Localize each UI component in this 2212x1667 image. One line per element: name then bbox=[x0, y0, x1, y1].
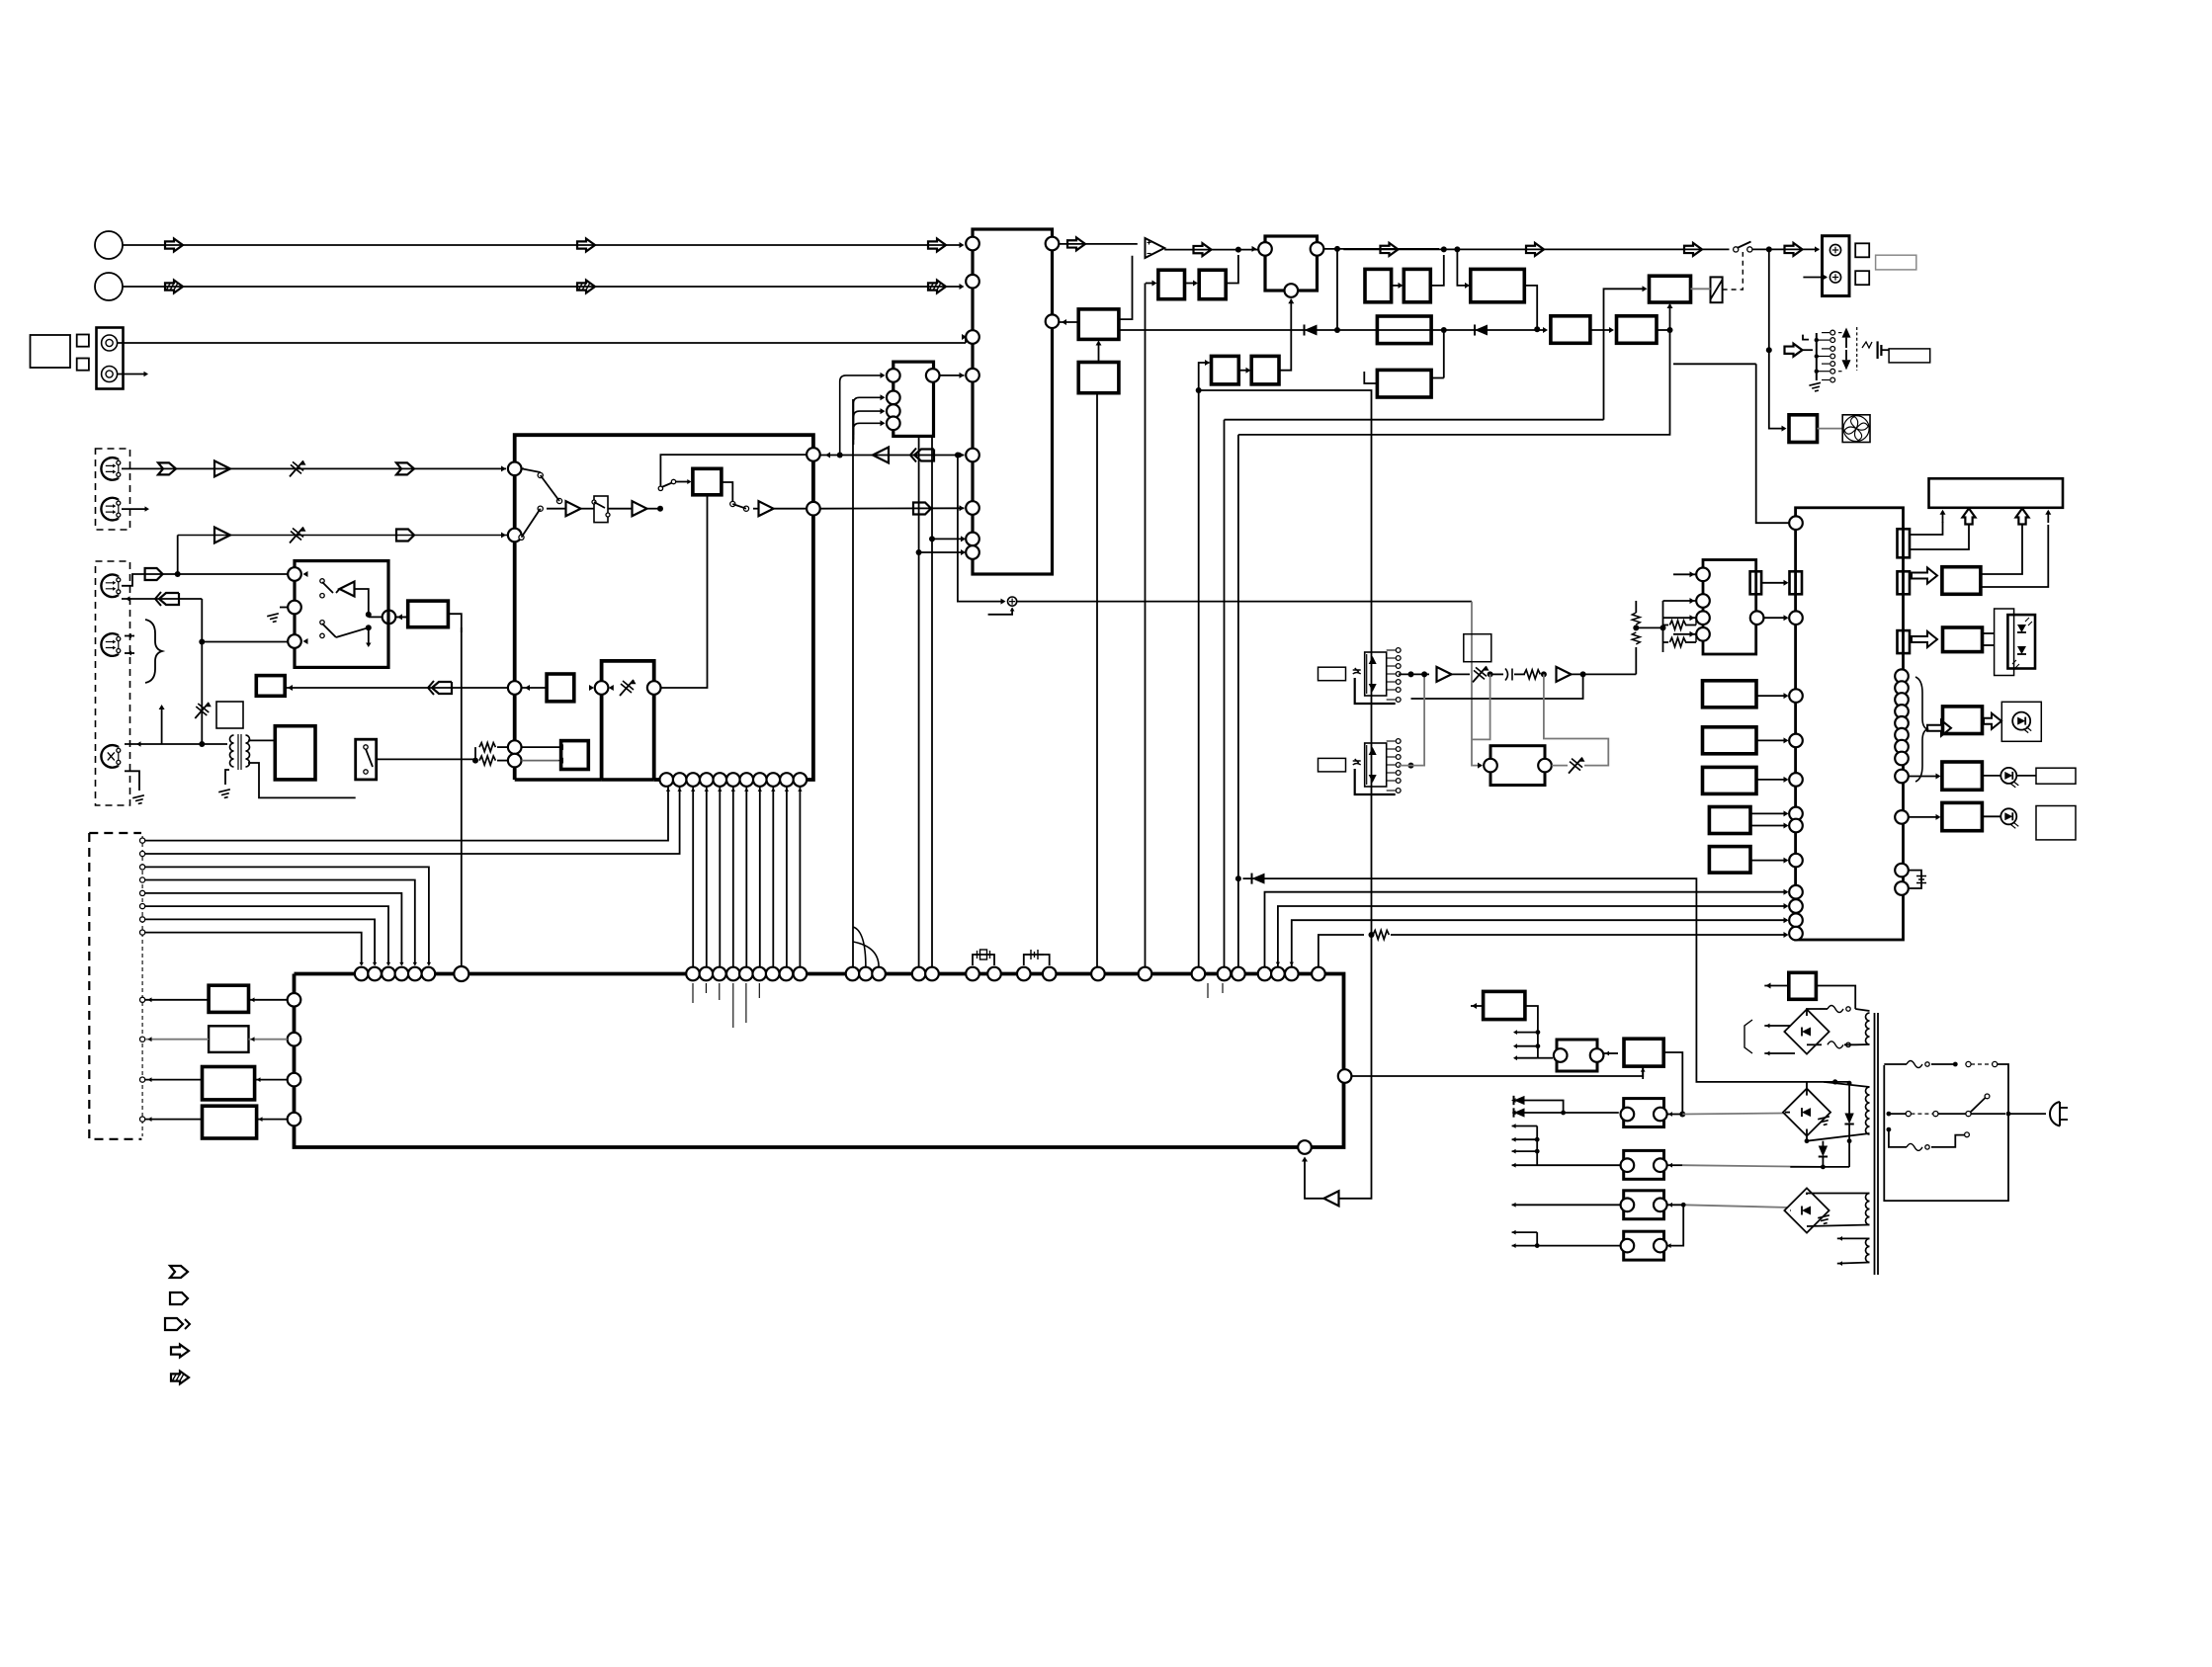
attenuator AT1 bbox=[290, 460, 303, 476]
arrowhead L2 bbox=[960, 284, 965, 290]
connector J1 body bbox=[97, 328, 124, 389]
rect led drv bbox=[1943, 707, 1983, 734]
DSP top pin F bbox=[1091, 967, 1105, 981]
arrowhead rectI to sw bbox=[397, 614, 402, 620]
wire M2 out up bbox=[1399, 674, 1424, 765]
label box amp1 bbox=[1319, 667, 1346, 681]
legend arrow hatched bbox=[171, 1372, 189, 1384]
AC plug bbox=[2050, 1102, 2060, 1126]
contact line 1 up bbox=[142, 787, 668, 841]
big arrow cluster bbox=[1927, 720, 1951, 736]
dashed IO box bbox=[89, 833, 141, 1139]
ground G2 bbox=[218, 790, 231, 799]
wire x1460 down bbox=[1443, 330, 1445, 378]
attenuator AT10 bbox=[1473, 666, 1487, 682]
stadF c1 bbox=[1621, 1239, 1635, 1253]
wire bus y460 bbox=[820, 455, 965, 457]
wire E to F bbox=[1668, 1205, 1683, 1245]
switch box SB1 bbox=[295, 561, 388, 668]
capacitor C10 bbox=[1505, 669, 1512, 681]
W1 fuse bot bbox=[1828, 1042, 1843, 1048]
wire rk net bbox=[1662, 601, 1664, 652]
wire T1 row bbox=[122, 467, 506, 469]
zener ZD1 bbox=[1844, 1114, 1853, 1125]
wire vbus to matrix row3 bbox=[202, 641, 289, 643]
wire vert x968 to summer bbox=[958, 456, 1004, 602]
stadC c1 bbox=[1621, 1108, 1635, 1122]
tuner T1 bbox=[101, 458, 118, 480]
MCU pin L-c4 bbox=[1789, 773, 1803, 787]
MCU pin L-c11 bbox=[1789, 927, 1803, 941]
wire to cap bbox=[1490, 673, 1503, 675]
disp arrow big2 bbox=[2016, 509, 2029, 525]
DSP top pins A bbox=[686, 967, 700, 981]
J5 pin2 bbox=[887, 391, 900, 405]
wire row2 diag bbox=[519, 535, 524, 540]
wire FM antenna rail bbox=[123, 244, 961, 246]
led box bbox=[2001, 702, 2041, 741]
junction y460 a bbox=[837, 453, 843, 458]
junction M2 out bbox=[1408, 763, 1414, 769]
wire K to edge pin bbox=[522, 687, 548, 689]
junction rail2 bbox=[1660, 625, 1666, 630]
switchbox right pin bbox=[383, 611, 396, 625]
IC3 pin L4 bbox=[966, 369, 979, 382]
J5 pin3 bbox=[887, 404, 900, 418]
attenuator AT11 bbox=[1569, 758, 1582, 774]
wire vbus middle bbox=[201, 642, 203, 745]
wire fb vertical bbox=[1119, 256, 1132, 319]
label lbox2 bbox=[2036, 806, 2076, 840]
BR3 top bbox=[1807, 1194, 1870, 1196]
resistor R10 bbox=[479, 743, 495, 752]
stadD c1 bbox=[1621, 1158, 1635, 1172]
dashed box tuner pair bbox=[96, 449, 130, 530]
MCU pin L-c2 bbox=[1789, 689, 1803, 703]
junction r20 bbox=[1541, 671, 1547, 677]
arrow A9 bbox=[1785, 243, 1803, 256]
MCU pin stadium R3 bbox=[1898, 630, 1911, 653]
pentagon P3 bbox=[913, 503, 931, 515]
arrow FB2 to FB1 bbox=[1098, 343, 1100, 363]
BR2 top bbox=[1806, 1082, 1808, 1096]
keys pin1 bbox=[1696, 568, 1710, 582]
resistor RV2 bbox=[1632, 613, 1640, 625]
switch S3 bbox=[1966, 1112, 1971, 1117]
wire m1 second bbox=[1411, 674, 1583, 699]
keys out circ bbox=[1750, 611, 1764, 625]
primary bottom bbox=[1887, 1127, 1892, 1132]
wire T3 up to pentagon row bbox=[122, 574, 178, 586]
arrowhead into T3 bbox=[126, 596, 130, 601]
BR3 out bbox=[1789, 1209, 1792, 1211]
signal arrow B2 hatched bbox=[577, 281, 595, 293]
winding W1 bbox=[1866, 1013, 1870, 1044]
pack hook bbox=[1803, 335, 1809, 340]
arrow RC-RD bbox=[1238, 370, 1249, 372]
contact square b bbox=[77, 359, 89, 371]
DR1 pin L bbox=[1484, 759, 1497, 773]
arrow to IR bbox=[1912, 568, 1937, 584]
wire at11 to DR1 bbox=[1552, 765, 1568, 767]
ZD1 wires bbox=[1848, 1082, 1850, 1114]
rect RG bbox=[1617, 316, 1658, 344]
staircase lines bbox=[145, 867, 429, 964]
crystal X1 sym bbox=[980, 950, 987, 959]
IC3 pin L8 bbox=[966, 545, 979, 559]
speaker terminal block bbox=[1823, 236, 1850, 296]
matrix bottom pins bbox=[660, 773, 674, 787]
rect RH protect bbox=[1650, 276, 1691, 302]
wire H to relay bbox=[1691, 288, 1711, 290]
BR2 left out bbox=[1785, 1112, 1790, 1114]
mosfet pack M1 bbox=[1365, 652, 1387, 696]
up arrow stub bbox=[161, 708, 163, 744]
rect drv2 bbox=[1942, 762, 1983, 790]
terminal sq2 bbox=[1855, 271, 1869, 285]
opto stadium C bbox=[1624, 1099, 1664, 1127]
switch inside SW9 bbox=[364, 745, 368, 749]
terminal sq1 bbox=[1855, 243, 1869, 257]
wire y368 link bbox=[1673, 363, 1756, 365]
SQ1 pin bc bbox=[1285, 284, 1299, 297]
tap arrows2 bbox=[1512, 1125, 1538, 1127]
wire O3 bbox=[145, 1079, 203, 1081]
rect remote bbox=[1943, 627, 1983, 652]
inner square block Q bbox=[693, 468, 722, 495]
rect RC2 wide bbox=[1471, 269, 1525, 301]
wire m2 down to RC2 bbox=[1457, 249, 1469, 286]
IC3 pin R2 bbox=[1046, 314, 1060, 328]
fan symbol bbox=[1842, 415, 1870, 443]
block FB1 bbox=[1078, 309, 1119, 340]
wire xfmr to block bbox=[248, 739, 275, 741]
arrowhead SQ1 bbox=[1252, 246, 1257, 252]
wire c9 bbox=[1909, 776, 1939, 778]
bus line 4 bbox=[1319, 935, 1364, 967]
wire fan link bbox=[1818, 428, 1843, 430]
mcu left rect R3 bbox=[1703, 767, 1757, 793]
wire O4b bbox=[257, 1119, 288, 1121]
signal arrow A2 bbox=[577, 239, 595, 252]
wire pentagon row right bbox=[178, 573, 290, 575]
wire y395 link bbox=[1199, 390, 1372, 935]
disp arrow t1 bbox=[1942, 511, 1944, 523]
wire rail up bbox=[1635, 647, 1637, 674]
wire a20 bbox=[1452, 673, 1471, 675]
pin stubs inside bbox=[692, 983, 694, 1003]
DSP bottom pin bbox=[1298, 1140, 1312, 1154]
signal arrow A3 bbox=[928, 239, 946, 252]
arrow into D bbox=[1668, 1163, 1672, 1168]
out rect O1 bbox=[209, 985, 248, 1012]
keys pin4 bbox=[1696, 627, 1710, 641]
SB1 wire inv bbox=[336, 589, 340, 593]
wire after switch bbox=[1752, 248, 1820, 250]
wire into L8 bbox=[919, 551, 965, 553]
rect RA bbox=[1158, 270, 1185, 299]
wire J1 pin1 to IC1 bbox=[118, 342, 966, 344]
wire stadA-B bbox=[1603, 1052, 1618, 1054]
wire vert x863 bbox=[852, 399, 854, 967]
IO contacts 2 bbox=[140, 997, 145, 1002]
W2 top rail bbox=[1824, 1082, 1870, 1087]
matrix pin row3-left bbox=[508, 529, 522, 542]
rect RB2 bbox=[1404, 269, 1430, 301]
mcu left rect R2 bbox=[1703, 727, 1757, 754]
bridge BR3 bbox=[1784, 1188, 1829, 1232]
keys block bbox=[1703, 560, 1756, 655]
wire T2 stub bbox=[122, 508, 146, 510]
SB1 down arrow bbox=[368, 627, 370, 644]
pentagon P1 bbox=[396, 530, 414, 542]
dual LED outer bbox=[1995, 609, 2014, 676]
SB1 switch1 bbox=[320, 579, 324, 583]
attenuator AT3 vertical bbox=[195, 703, 209, 718]
wire B bottom up bbox=[1642, 1066, 1644, 1079]
rect RA2 bbox=[1365, 269, 1392, 301]
crystal X1 loop bbox=[973, 955, 994, 965]
double chevron D1 bbox=[159, 593, 179, 605]
wire RC2 out bbox=[1524, 286, 1537, 329]
wire pack out bbox=[1881, 349, 1889, 351]
wire inner Q down bbox=[661, 495, 708, 688]
terminal plus1 bbox=[1829, 244, 1840, 255]
DSP block outline bbox=[295, 974, 1344, 1148]
pack squiggle bbox=[1862, 342, 1872, 348]
block FB2 bbox=[1078, 363, 1119, 393]
relay symbol bbox=[594, 496, 608, 523]
wire x1353 up bbox=[1336, 249, 1338, 330]
bridge BR2 bbox=[1783, 1089, 1830, 1136]
stadD c2 bbox=[1654, 1158, 1667, 1172]
stair to display1 bbox=[1910, 522, 1943, 535]
wire keys f4 bbox=[1673, 633, 1696, 635]
SB1 ground bbox=[267, 614, 280, 624]
wire d-pair bbox=[1525, 1101, 1564, 1114]
arrowhead to K bbox=[589, 685, 594, 691]
pentagon P2 bbox=[145, 568, 163, 580]
wire row1 bbox=[1525, 1112, 1619, 1114]
junction sq a bbox=[1334, 246, 1340, 252]
inner y460 feedback bbox=[660, 455, 807, 486]
wire RB up bbox=[1226, 255, 1238, 284]
wire to right pin2 bbox=[753, 508, 759, 510]
wire r4a bbox=[1750, 812, 1787, 814]
antenna input FM bbox=[95, 231, 123, 259]
led sym3 bbox=[2000, 808, 2016, 824]
BR2 bottom bbox=[1806, 1129, 1808, 1141]
junction vbus row3 bbox=[199, 639, 205, 645]
standby out bbox=[1764, 985, 1789, 987]
wire r20 down bbox=[1544, 674, 1608, 765]
junction rail2a bbox=[1832, 1079, 1837, 1084]
W2 bottom bbox=[1807, 1133, 1870, 1141]
wire row2 bbox=[1512, 1164, 1621, 1166]
wire c10 bbox=[1909, 816, 1939, 818]
wire remote-led2 bbox=[1983, 644, 1995, 646]
arrowhead SB1 p3 bbox=[303, 638, 308, 644]
wire row2 feed bbox=[177, 536, 179, 575]
resistor RK2 bbox=[1669, 638, 1685, 647]
MCU pin L-c1 bbox=[1789, 611, 1803, 625]
wire dchev to vbus bbox=[201, 599, 203, 642]
tall block IC3 bbox=[973, 229, 1053, 574]
reg block PB1 bbox=[1484, 991, 1525, 1019]
junction x1460 y334 bbox=[1441, 327, 1447, 333]
wire amp chain bbox=[547, 508, 566, 510]
opamp U10 bbox=[1146, 238, 1165, 258]
MCU block bbox=[1796, 508, 1904, 940]
fan drive wire bbox=[1769, 350, 1785, 428]
arrowhead into G bbox=[1609, 327, 1614, 333]
IC3 pin L5 bbox=[966, 449, 979, 462]
arrow keys2-mcu bbox=[1763, 617, 1787, 619]
wire SW9 to resistors bbox=[377, 758, 475, 760]
wire RA feed bbox=[1146, 283, 1155, 285]
wire inv to block bbox=[1305, 1158, 1324, 1199]
MCU pin L-c5 bbox=[1789, 807, 1803, 821]
wire SQ1 out bbox=[1323, 248, 1439, 250]
IO contacts bbox=[140, 838, 145, 843]
BR3 gnd bbox=[1818, 1215, 1830, 1225]
arrowhead L1 bbox=[960, 242, 965, 248]
double chevron D3 bbox=[432, 682, 452, 694]
tuner T4 bbox=[101, 633, 118, 656]
mcu left rect R4 bbox=[1709, 807, 1750, 834]
arrow into C bbox=[1668, 1112, 1672, 1117]
wire xfmr bottom out bbox=[248, 763, 356, 797]
label box phones bbox=[1889, 349, 1930, 363]
bus line 4b bbox=[1372, 934, 1374, 936]
brace group bbox=[145, 620, 162, 683]
IC3 pin L7 bbox=[966, 533, 979, 546]
contact square a bbox=[77, 335, 89, 347]
wire C out right bbox=[1682, 1114, 1785, 1115]
wire AM antenna rail bbox=[123, 286, 961, 288]
arrowhead inner bbox=[609, 685, 614, 691]
junction at10 bbox=[1488, 671, 1493, 677]
wire x1387 down bbox=[1339, 935, 1372, 1199]
opto stadium E bbox=[1624, 1191, 1664, 1219]
opto stadium D bbox=[1624, 1150, 1664, 1179]
bridge BR1 bbox=[1784, 1009, 1829, 1053]
switch down from Q bbox=[730, 501, 735, 506]
wire switchbox circle bbox=[395, 616, 407, 618]
arrow to remote bbox=[1912, 631, 1937, 647]
arrow A8 bbox=[1684, 243, 1702, 256]
SB1 junction1 bbox=[366, 612, 372, 618]
junction x1353 bbox=[1334, 327, 1340, 333]
wire rectI elbow bbox=[448, 614, 461, 632]
keys pin2 bbox=[1696, 594, 1710, 608]
junction res pair bbox=[472, 758, 478, 764]
switch up to Q bbox=[658, 486, 662, 490]
W1 bot wire bbox=[1844, 1043, 1870, 1045]
IC3 pin L3 bbox=[966, 330, 979, 344]
wire row2 bbox=[178, 535, 508, 537]
double chevron D2 bbox=[914, 450, 934, 461]
standby rect bbox=[1789, 972, 1817, 999]
wire J5 feed4 bbox=[854, 423, 884, 445]
tuner T2 bbox=[101, 498, 118, 521]
amp A21 bbox=[1557, 667, 1572, 682]
junction y460 b bbox=[955, 453, 961, 458]
label box amp2 bbox=[1319, 758, 1346, 772]
junction m1 bbox=[1441, 246, 1447, 252]
inner attenuator bbox=[620, 680, 634, 696]
arrowhead SB1 p1 bbox=[303, 571, 308, 577]
attenuator AT2 bbox=[290, 528, 303, 543]
matrix-to-DSP verticals bbox=[692, 787, 694, 967]
thin square S1 bbox=[216, 702, 243, 728]
wire matrix open row bbox=[522, 467, 525, 469]
bus line 3 bbox=[1292, 920, 1787, 967]
junction x1252 diode bbox=[1235, 875, 1241, 881]
led circle sym bbox=[2012, 712, 2030, 730]
wire drv2 led bbox=[1982, 775, 2000, 777]
bus line 2 bbox=[1278, 906, 1787, 967]
chevron C2 bbox=[396, 462, 414, 474]
keys pin3 bbox=[1696, 611, 1710, 625]
wire vert x943 bbox=[931, 436, 933, 966]
switch S2 bbox=[1906, 1112, 1911, 1117]
jack J1 pin2 bbox=[102, 367, 118, 382]
diode D3 bbox=[1252, 874, 1265, 884]
dashed box tuner group2 bbox=[96, 561, 130, 805]
winding W4 bbox=[1866, 1238, 1870, 1262]
stadC c2 bbox=[1654, 1108, 1667, 1122]
junction w2a bbox=[1847, 1081, 1852, 1086]
diode D4 bbox=[1819, 1146, 1828, 1157]
stadE c2 bbox=[1654, 1199, 1667, 1212]
resistor R20 bbox=[1524, 670, 1540, 679]
wire keys f2 bbox=[1663, 600, 1697, 602]
switch S1 bbox=[1966, 1061, 1971, 1066]
amp A15 left bbox=[873, 448, 889, 463]
switch chain row bbox=[538, 472, 543, 477]
wire R11 to pin bbox=[497, 760, 508, 762]
wire rail top bbox=[1635, 601, 1637, 613]
wire m3 down bbox=[1768, 249, 1770, 350]
wire RE2 hook bbox=[1364, 372, 1377, 383]
opto stadium A bbox=[1557, 1040, 1597, 1071]
block rect-I bbox=[408, 601, 449, 627]
wire M1 out bbox=[1399, 673, 1429, 675]
wire FB1 to R2pin bbox=[1059, 321, 1078, 323]
amp A11 bbox=[214, 528, 230, 543]
stair to display2 bbox=[1910, 525, 1969, 549]
DSP top pins B bbox=[846, 967, 860, 981]
rect RC bbox=[1212, 356, 1239, 384]
inner sub block bbox=[602, 661, 654, 780]
MCU pin stadium L1 bbox=[1790, 571, 1803, 594]
led2 bbox=[2017, 646, 2026, 654]
wire J5 out to IC3 bbox=[940, 375, 965, 376]
amp A20 bbox=[1437, 667, 1452, 682]
IC3 pin L2 bbox=[966, 275, 979, 289]
MCU pin R-c11 bbox=[1895, 864, 1909, 877]
wire xfmr left gnd bbox=[225, 770, 229, 785]
junction op1 bbox=[1235, 247, 1241, 253]
BR3 bot bbox=[1807, 1225, 1870, 1227]
disp arrow big1 bbox=[1963, 509, 1976, 525]
primary wire1 bbox=[1931, 1063, 1955, 1065]
stadF c2 bbox=[1654, 1239, 1667, 1253]
primary fuse2 bbox=[1907, 1143, 1922, 1150]
wire phono ground path bbox=[125, 771, 139, 791]
wire T4 stub arrows bbox=[125, 635, 134, 637]
